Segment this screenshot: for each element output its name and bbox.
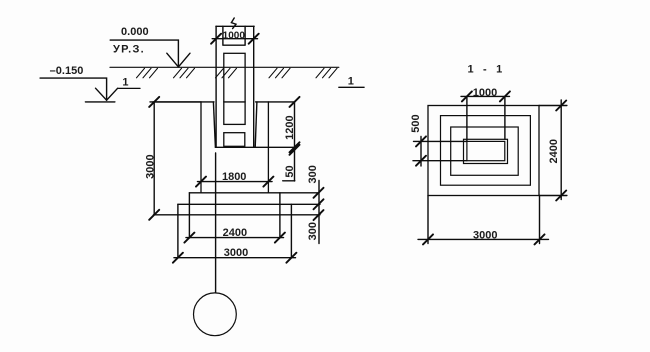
pedestal left side [200, 102, 202, 193]
plan dim 1000 line [461, 95, 510, 97]
dim 3000 left top extension [153, 101, 201, 103]
pedestal top line [150, 101, 295, 103]
column left face [215, 26, 217, 147]
plan dim 2400 ticks [556, 101, 566, 201]
column top line [216, 25, 254, 27]
plan dim 1000 extensions [467, 96, 505, 141]
dim 1000 top ticks [211, 34, 259, 44]
footing bottom line [154, 214, 321, 216]
plan dim 3000 ticks [423, 234, 545, 244]
svg-text:0.000: 0.000 [121, 26, 149, 38]
svg-text:1 - 1: 1 - 1 [467, 64, 505, 76]
plan dim 2400 extensions [539, 106, 567, 196]
dim 3000 left ticks [149, 97, 159, 220]
step2 left side [188, 193, 190, 238]
dim 3000 bottom ticks [173, 253, 297, 263]
dim 1800 ticks [196, 177, 273, 187]
level mark -0.150 symbol [96, 88, 118, 100]
plan dim 500 ticks [416, 136, 426, 165]
svg-text:2400: 2400 [223, 227, 247, 239]
step3 top line [178, 203, 320, 205]
svg-text:3000: 3000 [145, 154, 157, 178]
dim 1800 line [198, 181, 273, 183]
plan step3 rect [451, 127, 519, 175]
svg-text:1000: 1000 [473, 87, 497, 99]
section mark 1 right underline [339, 86, 364, 88]
level mark 0.000 symbol [167, 53, 190, 67]
dim 1200-50 chain line [294, 102, 296, 181]
socket bottom line + extension [215, 146, 294, 148]
level mark 0.000 leader [110, 40, 178, 67]
plan socket inner rect [467, 141, 505, 160]
svg-text:1: 1 [122, 77, 128, 89]
dim 3000 bottom line [174, 257, 296, 259]
level mark -0.150 leader [40, 78, 107, 100]
step2 right side [279, 193, 281, 238]
column right face [253, 26, 255, 147]
section mark 1 left underline [119, 87, 141, 89]
svg-text:50: 50 [284, 165, 296, 177]
svg-text:–0.150: –0.150 [50, 65, 84, 77]
plan dim 1000 ticks [462, 91, 510, 101]
pedestal right side [267, 102, 269, 193]
column head box [223, 26, 245, 45]
level mark -0.150 base line [85, 101, 115, 103]
column break symbol [231, 18, 236, 29]
callout leader [215, 153, 217, 292]
socket wall right [255, 102, 257, 147]
ground hatching [137, 68, 338, 78]
plan dim 2400 line [560, 100, 562, 200]
dim 2400 ticks [184, 233, 285, 243]
column lower window [224, 133, 245, 147]
plan socket outer rect [464, 139, 508, 163]
socket wall left [213, 102, 215, 147]
step3 left side [177, 204, 179, 257]
svg-text:1000: 1000 [223, 31, 246, 42]
plan step2 rect [441, 116, 531, 186]
plan dim 500 line [420, 137, 422, 167]
plan outer rect [428, 106, 539, 196]
step3 right side [290, 204, 292, 257]
svg-text:500: 500 [410, 114, 422, 132]
svg-text:1: 1 [348, 76, 354, 88]
dim 1000 top line [212, 38, 257, 40]
dim 1200-50 ticks [290, 97, 300, 155]
svg-text:300: 300 [307, 165, 319, 183]
svg-text:3000: 3000 [224, 247, 248, 259]
plan dim 3000 extensions [428, 196, 540, 244]
step2 top line [189, 192, 318, 194]
plan dim 3000 line [418, 238, 549, 240]
svg-text:2400: 2400 [548, 139, 560, 163]
dim 50 text shelf [283, 180, 295, 182]
dim 300-300 chain line [318, 181, 320, 244]
dim 300-300 ticks [314, 188, 324, 220]
svg-text:УР.З.: УР.З. [113, 44, 145, 56]
svg-text:1800: 1800 [222, 171, 246, 183]
column upper window [224, 53, 245, 124]
dim 2400 line [186, 237, 284, 239]
plan dim 500 extensions [413, 141, 467, 160]
dim 3000 left vertical line [153, 102, 155, 215]
svg-text:300: 300 [307, 222, 319, 240]
svg-text:1200: 1200 [284, 115, 296, 139]
svg-text:3000: 3000 [473, 229, 497, 241]
ground line [110, 66, 339, 68]
callout circle [194, 293, 237, 336]
